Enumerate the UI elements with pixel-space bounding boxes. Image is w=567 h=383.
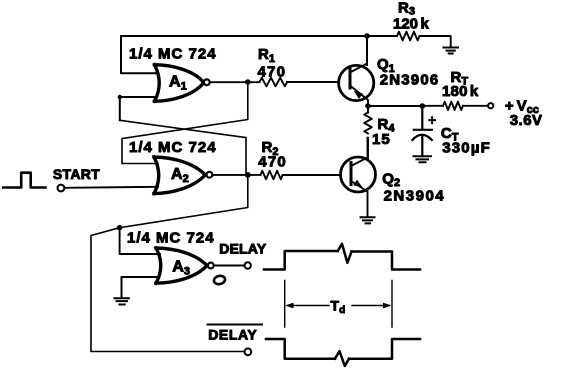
Q2 emitter arrow (NPN) [353, 180, 362, 188]
break mark (DELAY waveform) [338, 244, 352, 263]
transistor Q2 [341, 157, 376, 192]
svg-text:2N3906: 2N3906 [380, 72, 440, 89]
Q1 emitter arrow (PNP) [354, 91, 363, 99]
svg-text:180k: 180k [442, 83, 479, 100]
node: R3 junction [364, 33, 370, 39]
wire: A3 output to DELAY terminal [214, 265, 244, 267]
NOR gate A2 [154, 157, 205, 194]
wire: RT to Vcc terminal [463, 105, 488, 107]
ground (CT) [414, 156, 432, 162]
svg-text:DELAY: DELAY [208, 327, 257, 343]
svg-text:2N3904: 2N3904 [384, 188, 446, 205]
wire: Q1 collector vertical [366, 36, 368, 65]
wire: A2 output to R2 [213, 174, 261, 176]
wire: R3 to ground [420, 36, 451, 47]
resistor R4 [364, 113, 372, 134]
terminal DELAY [245, 262, 251, 268]
wire: R1 to Q1 base [287, 81, 339, 83]
node: CT junction [420, 103, 426, 109]
svg-text:120k: 120k [393, 15, 430, 32]
capacitor CT [412, 106, 432, 156]
ground (Q2) [361, 217, 375, 223]
resistor R3 [397, 32, 420, 41]
wire: junction to A3 top input [120, 228, 160, 254]
svg-text:A1: A1 [169, 74, 187, 93]
overbar of DELAY-bar [208, 324, 263, 326]
node: Q1 emitter junction [365, 103, 371, 109]
node: A1 output junction [245, 79, 251, 85]
wire: A2 output junction down to A3 [91, 175, 248, 352]
svg-text:Q2: Q2 [382, 171, 400, 190]
transistor Q1 [339, 65, 374, 100]
NOR gate A1 [155, 65, 204, 102]
wire: junction to R3 [367, 35, 397, 37]
Q2 base bar [350, 163, 353, 185]
dimension arrow Td left [288, 305, 329, 307]
dimension boundary lines Td [285, 281, 392, 328]
svg-text:START: START [53, 166, 100, 182]
terminal: START input [58, 185, 65, 192]
capacitor CT plus sign [429, 117, 435, 123]
wire: R2 to Q2 base [283, 174, 341, 176]
wire: R4 to Q2 collector [367, 138, 369, 159]
ground (R3) [444, 48, 459, 54]
break mark (DELAY-bar waveform) [335, 351, 349, 366]
node: A3 branch junction [117, 225, 123, 231]
bubble A2 output [207, 172, 213, 178]
resistor R2 [261, 171, 283, 180]
node: A2 output junction [245, 172, 251, 178]
terminal DELAY-bar [245, 348, 252, 355]
dimension arrow Td right [352, 305, 389, 307]
Q1 emitter lead [350, 86, 368, 107]
wire: cross-coupling A2 output to A1 input [120, 120, 246, 175]
wire: A1 bottom input [120, 97, 157, 120]
wire: node to R4 [367, 106, 369, 113]
svg-text:3.6V: 3.6V [510, 112, 543, 129]
stray mark (printed artifact o) [213, 275, 226, 285]
terminal +Vcc [488, 103, 493, 108]
resistor RT [443, 102, 463, 110]
svg-text:DELAY: DELAY [219, 240, 267, 256]
input pulse symbol [3, 173, 45, 188]
wire: Q1 collector feedback top line to A1 input [121, 35, 367, 37]
waveform DELAY (high pulse with break) [264, 251, 420, 270]
svg-text:1/4 MC 724: 1/4 MC 724 [129, 139, 217, 156]
node: A1 input corner [118, 95, 122, 99]
svg-text:15: 15 [372, 131, 391, 148]
Q2 collector lead [351, 138, 368, 166]
wire: left vertical to A1 top input [121, 36, 158, 73]
wire: cross-coupling A1 output to A2 input [122, 82, 248, 164]
wire: rail Q1 emitter to CT/RT [368, 105, 422, 107]
Q1 base bar [349, 69, 352, 89]
Q2 emitter lead [351, 181, 368, 216]
svg-text:1/4 MC 724: 1/4 MC 724 [127, 230, 215, 247]
waveform DELAY-bar (low pulse with break) [266, 339, 420, 359]
wire: CT node to RT [422, 105, 443, 107]
svg-text:1/4 MC 724: 1/4 MC 724 [129, 46, 217, 63]
svg-text:A2: A2 [171, 166, 189, 185]
bubble A1 output [204, 79, 210, 85]
wire: START to A2 input [65, 187, 159, 188]
wire: A1 output to R1 [210, 81, 260, 83]
Q1 collector lead [350, 36, 367, 73]
bubble A3 output [208, 263, 214, 269]
NOR gate A3 [156, 248, 207, 283]
svg-text:R1: R1 [258, 46, 275, 65]
ground (A3) [115, 298, 129, 304]
resistor R1 [260, 78, 288, 87]
svg-text:330µF: 330µF [442, 140, 491, 157]
svg-text:470: 470 [258, 154, 287, 171]
svg-text:Td: Td [331, 298, 346, 317]
wire: A3 bottom input to ground [122, 277, 159, 298]
svg-text:A3: A3 [172, 259, 190, 278]
